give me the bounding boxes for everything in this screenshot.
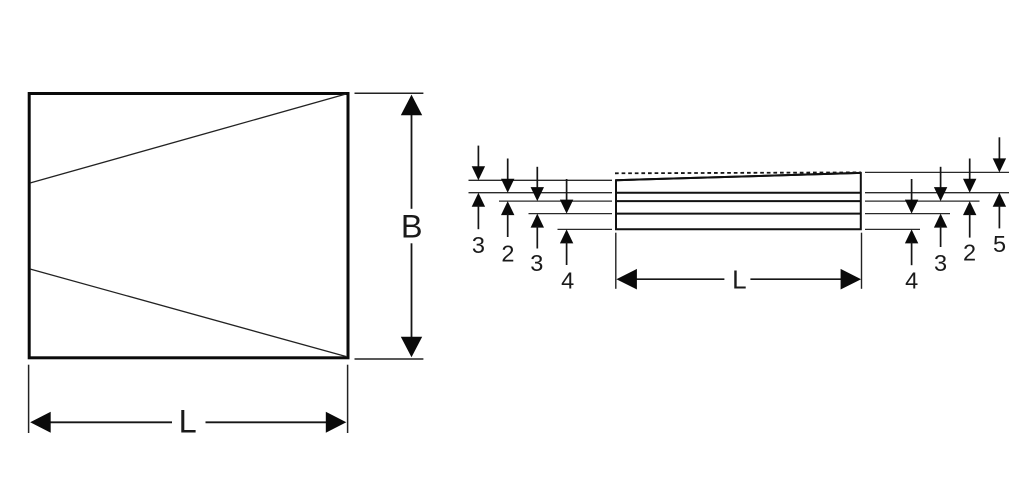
dimension L right: left extension line: [615, 233, 617, 289]
dimension L left: dimension line with arrowheads: [30, 412, 346, 433]
left dim 2 (value 2, B to C): arrows: [501, 159, 514, 238]
extension line C right: [865, 200, 980, 202]
extension line B right: [865, 192, 1009, 194]
extension line D right: [865, 213, 950, 215]
dimension L right: dimension line with arrowheads: [616, 269, 861, 290]
left dim 3: label 3: [530, 250, 543, 276]
svg-text:3: 3: [934, 250, 947, 276]
dimension B: label B: [401, 209, 423, 245]
right dim 4: label 4: [905, 267, 918, 293]
extension line E right (bottom level): [865, 228, 920, 230]
right dim 3 (value 3, C to D): arrows: [934, 167, 947, 247]
svg-text:L: L: [732, 264, 746, 294]
dimension L left: left extension line: [28, 365, 30, 433]
svg-text:5: 5: [993, 231, 1006, 257]
left view: panel outline: [29, 94, 348, 358]
dimension L right: right extension line: [861, 233, 863, 289]
left dim 2: label 2: [501, 241, 514, 267]
right dim 2 (value 2, B to C): arrows: [963, 159, 976, 238]
left dim 4: label 4: [561, 267, 574, 293]
extension line A left (top surface level): [469, 179, 613, 181]
left dim 3 (value 3, C to D): arrows: [531, 167, 544, 249]
side view: inner layer line B: [616, 192, 861, 194]
dimension L left: right extension line: [347, 365, 349, 433]
dimension L right: label L: [732, 264, 746, 294]
side view: panel body outline: [616, 173, 861, 229]
right dim 5: label 5: [993, 231, 1006, 257]
dimension B: dimension line with arrowheads: [401, 95, 422, 358]
side view: dashed top reference line: [615, 171, 861, 174]
left dim 1: label 3: [472, 232, 485, 258]
side view: inner layer line D: [616, 213, 861, 215]
svg-text:4: 4: [561, 267, 574, 293]
svg-text:2: 2: [963, 240, 976, 266]
extension line D left: [529, 213, 613, 215]
extension line C left: [499, 200, 612, 202]
left view: lower diagonal fold line: [30, 269, 346, 357]
svg-text:4: 4: [905, 267, 918, 293]
left view: upper diagonal fold line: [30, 94, 346, 183]
right dim 5 (value 5, A' to B): arrows: [993, 137, 1006, 228]
right dim 4 (value 4, D to E): arrows: [905, 179, 918, 265]
extension line E left (bottom level): [558, 228, 613, 230]
dimension B: top extension line: [355, 92, 424, 94]
side view: inner layer line C: [616, 200, 861, 202]
svg-text:3: 3: [472, 232, 485, 258]
extension line B left: [469, 192, 613, 194]
extension line A' right (dashed top level): [865, 171, 1009, 173]
left dim 4 (value 4, D to E): arrows: [560, 179, 573, 265]
svg-text:L: L: [179, 404, 197, 440]
dimension L left: label L: [179, 404, 197, 440]
right dim 2: label 2: [963, 240, 976, 266]
right dim 3: label 3: [934, 250, 947, 276]
left dim 1 (value 3, A to B): arrows: [472, 146, 485, 230]
side view: sloped top surface line: [616, 173, 861, 180]
svg-text:2: 2: [501, 241, 514, 267]
svg-text:3: 3: [530, 250, 543, 276]
svg-text:B: B: [401, 209, 423, 245]
dimension B: bottom extension line: [355, 358, 424, 360]
